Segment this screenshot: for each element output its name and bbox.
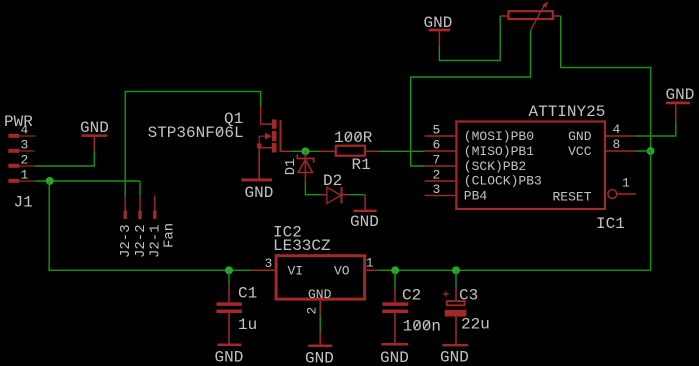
potentiometer wiper arrow bbox=[531, 1, 549, 30]
svg-text:(MISO)PB1: (MISO)PB1 bbox=[464, 144, 534, 159]
svg-text:C3: C3 bbox=[459, 287, 478, 305]
node junction C1 top bbox=[225, 267, 233, 275]
transistor Q1 gate line bbox=[280, 120, 282, 152]
resistor R1 bbox=[319, 146, 379, 156]
svg-text:C2: C2 bbox=[402, 287, 421, 305]
svg-text:1: 1 bbox=[366, 256, 374, 271]
svg-text:6: 6 bbox=[432, 138, 440, 153]
svg-text:J2-2: J2-2 bbox=[133, 224, 149, 258]
wire VO rail to right bbox=[378, 269, 651, 271]
plus sign C3 bbox=[443, 292, 449, 297]
svg-text:PB4: PB4 bbox=[464, 189, 488, 204]
IC1 pin 6 bbox=[425, 150, 456, 152]
svg-text:IC1: IC1 bbox=[596, 215, 625, 233]
ground symbol below C2 bbox=[381, 343, 408, 346]
IC1 box ATTINY25 bbox=[456, 122, 605, 210]
IC1 pin 2 bbox=[425, 180, 456, 182]
svg-text:100R: 100R bbox=[334, 129, 373, 147]
svg-text:1: 1 bbox=[20, 168, 28, 183]
connector J1 pin 1 bbox=[8, 179, 34, 183]
svg-text:J2-3: J2-3 bbox=[118, 224, 134, 258]
wire pot right to VCC bbox=[561, 16, 651, 151]
svg-text:R1: R1 bbox=[352, 156, 371, 174]
svg-text:ATTINY25: ATTINY25 bbox=[529, 103, 606, 121]
svg-text:8: 8 bbox=[613, 137, 621, 152]
wire top net to J2-3 bbox=[125, 92, 260, 196]
svg-text:1: 1 bbox=[622, 175, 630, 190]
node junction VCC pin8 bbox=[647, 147, 655, 155]
svg-text:GND: GND bbox=[350, 213, 379, 231]
wire gate to R1 bbox=[290, 150, 319, 152]
ground symbol below IC2 bbox=[308, 333, 332, 348]
ground symbol below C1 bbox=[217, 344, 241, 347]
svg-text:C1: C1 bbox=[238, 285, 257, 303]
svg-text:VO: VO bbox=[334, 264, 350, 279]
svg-text:GND: GND bbox=[380, 349, 409, 366]
wire IC2 pin2 down bbox=[319, 314, 321, 332]
IC1 pin 7 bbox=[425, 165, 456, 167]
diode D2 bbox=[321, 187, 349, 203]
svg-text:2: 2 bbox=[432, 168, 440, 183]
wire J2-2 drop bbox=[139, 181, 141, 196]
svg-text:(SCK)PB2: (SCK)PB2 bbox=[464, 159, 526, 174]
capacitor C2 bbox=[382, 270, 408, 343]
svg-text:Fan: Fan bbox=[162, 223, 178, 248]
svg-text:(MOSI)PB0: (MOSI)PB0 bbox=[464, 129, 534, 144]
svg-text:VI: VI bbox=[288, 264, 304, 279]
svg-text:GND: GND bbox=[305, 350, 334, 366]
svg-text:GND: GND bbox=[308, 287, 332, 302]
node junction C3 top bbox=[452, 267, 460, 275]
svg-text:GND: GND bbox=[215, 348, 244, 366]
wire VCC rail right side down bbox=[636, 151, 650, 270]
svg-text:1u: 1u bbox=[238, 316, 257, 334]
svg-text:LE33CZ: LE33CZ bbox=[273, 237, 331, 255]
IC1 pin 8 VCC bbox=[606, 150, 636, 152]
wire gnd to pot left bbox=[439, 16, 500, 61]
svg-text:D1: D1 bbox=[283, 158, 299, 175]
IC1 pin 5 bbox=[425, 135, 456, 137]
IC2 pin 2 GND bbox=[319, 301, 321, 315]
transistor Q1 body bar bbox=[272, 131, 277, 141]
capacitor C3 polarized bbox=[445, 270, 467, 344]
wire R1 to IC1 pin6 bbox=[379, 150, 425, 152]
svg-text:3: 3 bbox=[20, 138, 28, 153]
ground symbol near Q1 bbox=[241, 148, 272, 181]
connector J2 pin J2-2 bbox=[138, 196, 141, 220]
transistor Q1 source lead bbox=[259, 148, 272, 179]
connector J2 pin J2-3 bbox=[124, 196, 127, 220]
connector J1 pin 2 bbox=[8, 164, 34, 168]
ground symbol top right bbox=[666, 102, 690, 123]
IC2 box LE33CZ bbox=[276, 256, 365, 299]
svg-text:GND: GND bbox=[666, 86, 695, 104]
wire J1 pin1 horizontal bbox=[35, 180, 140, 182]
svg-text:2: 2 bbox=[20, 153, 28, 168]
svg-text:PWR: PWR bbox=[4, 113, 33, 131]
svg-text:5: 5 bbox=[432, 123, 440, 138]
connector J1 pin 4 bbox=[8, 134, 34, 138]
wire D2 cathode to ground bbox=[349, 194, 365, 196]
IC1 pin 1 RESET bbox=[608, 190, 636, 199]
svg-text:(CLOCK)PB3: (CLOCK)PB3 bbox=[464, 174, 542, 189]
IC2 pin 1 VO bbox=[366, 269, 378, 271]
node junction J1 pin1 bbox=[46, 177, 54, 185]
wire J1 pin2 to GND bbox=[35, 151, 95, 167]
transistor Q1 drain bar bbox=[272, 119, 277, 128]
IC2 pin 3 VI bbox=[252, 269, 274, 271]
wire pot wiper to IC1 pin7 bbox=[411, 30, 531, 166]
svg-text:7: 7 bbox=[432, 153, 440, 168]
svg-text:VCC: VCC bbox=[568, 144, 592, 159]
IC1 pin 4 GND bbox=[606, 135, 636, 137]
transistor Q1 drain lead bbox=[261, 106, 272, 124]
wire IC1 pin4 to top right GND bbox=[636, 122, 676, 136]
wire left vertical to bottom rail bbox=[49, 181, 252, 270]
svg-text:GND: GND bbox=[568, 129, 592, 144]
svg-text:RESET: RESET bbox=[552, 190, 591, 205]
transistor Q1 bulk arrow bbox=[259, 133, 272, 144]
ground symbol near D2 bbox=[354, 195, 377, 212]
ground symbol near J1 bbox=[82, 134, 108, 150]
wire D1 anode to D2 bbox=[305, 181, 321, 194]
connector J1 pin 3 bbox=[8, 149, 34, 153]
diode D1 zener bbox=[297, 151, 313, 181]
svg-text:D2: D2 bbox=[323, 172, 342, 190]
svg-text:3: 3 bbox=[264, 256, 272, 271]
svg-text:100n: 100n bbox=[403, 318, 441, 336]
transistor Q1 gate lead bbox=[281, 150, 291, 152]
svg-text:GND: GND bbox=[440, 348, 469, 366]
capacitor C1 bbox=[217, 270, 242, 343]
node junction C2 top bbox=[391, 267, 399, 275]
IC1 pin 3 bbox=[425, 195, 456, 197]
svg-text:2: 2 bbox=[305, 307, 320, 315]
svg-text:3: 3 bbox=[432, 182, 440, 197]
ground symbol top left bbox=[429, 29, 450, 46]
svg-text:J1: J1 bbox=[14, 194, 33, 212]
potentiometer body bbox=[500, 11, 561, 19]
svg-text:STP36NF06L: STP36NF06L bbox=[148, 124, 244, 142]
svg-text:4: 4 bbox=[613, 122, 621, 137]
svg-text:GND: GND bbox=[80, 119, 109, 137]
svg-text:GND: GND bbox=[424, 14, 453, 32]
node junction gate/D1 bbox=[302, 148, 310, 156]
svg-text:22u: 22u bbox=[461, 316, 490, 334]
svg-text:GND: GND bbox=[245, 184, 274, 202]
transistor Q1 source pad bbox=[257, 144, 262, 149]
ground symbol below C3 bbox=[442, 344, 468, 347]
connector J2 pin J2-1 bbox=[153, 196, 156, 220]
transistor Q1 source bar bbox=[272, 143, 277, 153]
